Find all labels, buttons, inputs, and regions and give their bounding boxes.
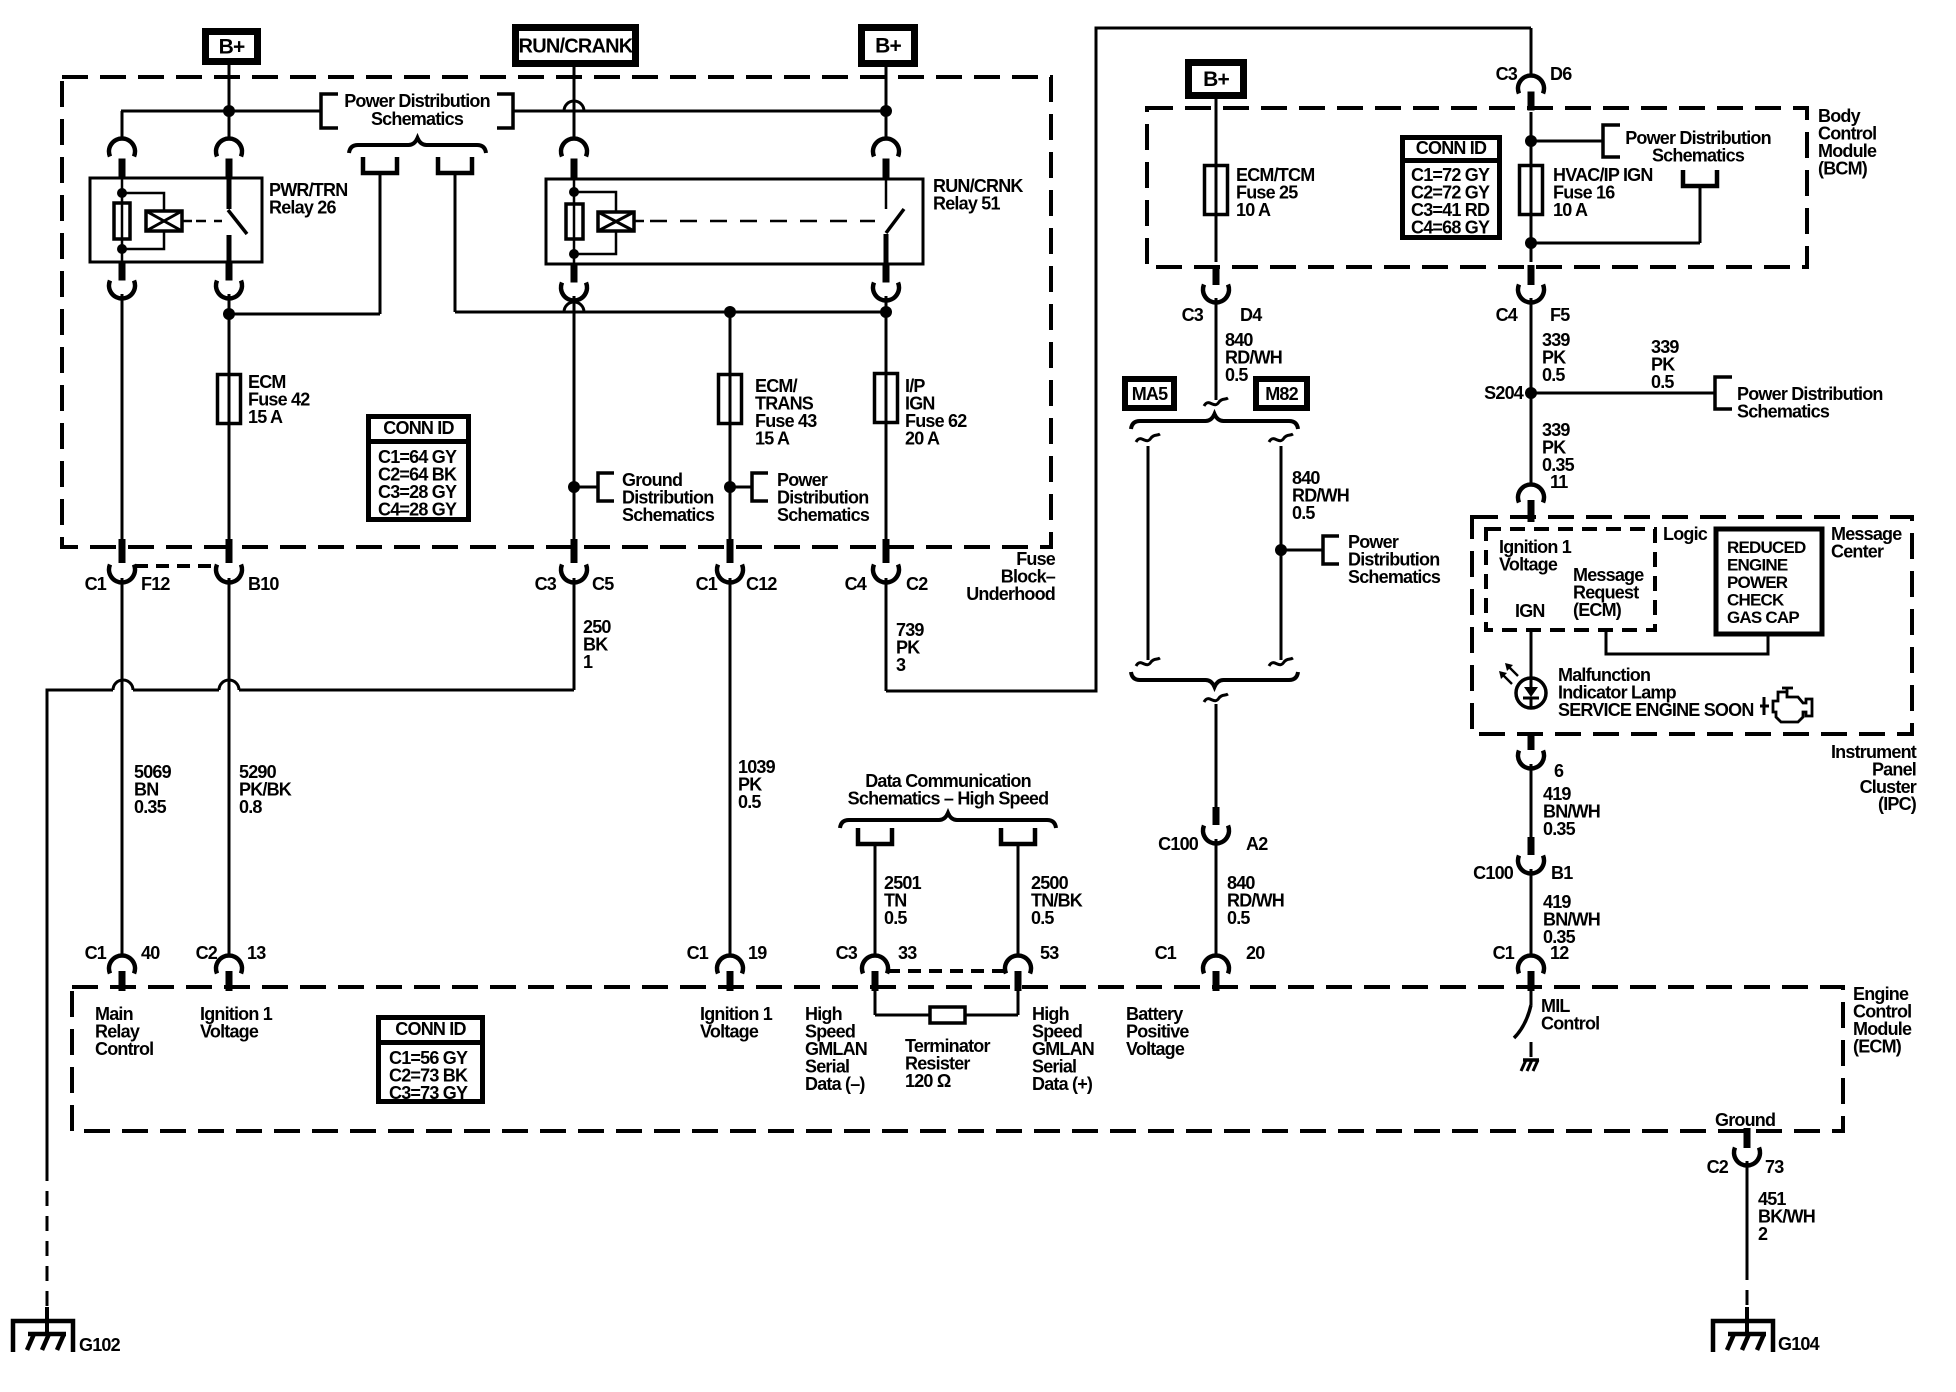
svg-text:19: 19 — [748, 943, 767, 963]
svg-text:10 A: 10 A — [1553, 200, 1588, 220]
svg-text:C1: C1 — [687, 943, 709, 963]
svg-text:120 Ω: 120 Ω — [905, 1071, 951, 1091]
svg-text:40: 40 — [141, 943, 160, 963]
svg-text:Schematics: Schematics — [1652, 146, 1745, 166]
svg-text:Logic: Logic — [1663, 524, 1708, 544]
svg-text:Data (+): Data (+) — [1032, 1074, 1093, 1094]
svg-text:C3: C3 — [836, 943, 858, 963]
svg-text:C100: C100 — [1158, 834, 1199, 854]
svg-text:C4=68 GY: C4=68 GY — [1411, 218, 1490, 238]
svg-text:C1: C1 — [85, 943, 107, 963]
svg-text:B+: B+ — [219, 36, 245, 59]
svg-text:15 A: 15 A — [755, 429, 790, 449]
svg-text:C5: C5 — [592, 574, 614, 594]
svg-text:20: 20 — [1246, 943, 1265, 963]
svg-text:F5: F5 — [1550, 305, 1570, 325]
svg-text:M82: M82 — [1265, 384, 1298, 404]
svg-text:13: 13 — [247, 943, 266, 963]
svg-text:0.5: 0.5 — [1227, 908, 1250, 928]
svg-text:Ground: Ground — [1715, 1110, 1775, 1130]
svg-text:Schematics: Schematics — [371, 109, 464, 129]
svg-text:Schematics: Schematics — [1348, 567, 1441, 587]
svg-text:REDUCED: REDUCED — [1727, 538, 1806, 557]
svg-text:RUN/CRANK: RUN/CRANK — [519, 36, 634, 58]
svg-text:C1: C1 — [1493, 943, 1515, 963]
svg-text:Power Distribution: Power Distribution — [344, 91, 490, 111]
svg-text:Underhood: Underhood — [966, 584, 1055, 604]
svg-text:(IPC): (IPC) — [1878, 794, 1917, 814]
svg-text:Schematics: Schematics — [777, 505, 870, 525]
svg-text:20 A: 20 A — [905, 429, 940, 449]
svg-text:11: 11 — [1550, 472, 1568, 492]
svg-text:C2: C2 — [1707, 1157, 1729, 1177]
svg-text:10 A: 10 A — [1236, 200, 1271, 220]
svg-text:12: 12 — [1550, 943, 1569, 963]
svg-text:Data (–): Data (–) — [805, 1074, 865, 1094]
svg-text:Control: Control — [95, 1039, 153, 1059]
svg-text:73: 73 — [1765, 1157, 1784, 1177]
svg-text:0.5: 0.5 — [1651, 372, 1674, 392]
svg-text:0.5: 0.5 — [1292, 503, 1315, 523]
svg-text:15 A: 15 A — [248, 407, 283, 427]
svg-text:C3: C3 — [1182, 305, 1204, 325]
svg-text:Relay 51: Relay 51 — [933, 194, 1000, 214]
svg-text:POWER: POWER — [1727, 573, 1788, 592]
svg-text:33: 33 — [898, 943, 917, 963]
svg-text:D6: D6 — [1550, 64, 1572, 84]
svg-text:C4: C4 — [845, 574, 867, 594]
svg-text:IGN: IGN — [1515, 601, 1545, 621]
svg-text:C3: C3 — [1496, 64, 1518, 84]
svg-text:G102: G102 — [79, 1335, 121, 1355]
svg-text:C1: C1 — [696, 574, 718, 594]
svg-text:C100: C100 — [1473, 863, 1514, 883]
svg-text:CONN ID: CONN ID — [383, 418, 454, 438]
svg-text:CONN ID: CONN ID — [1416, 138, 1487, 158]
svg-text:0.5: 0.5 — [1542, 365, 1565, 385]
svg-text:Voltage: Voltage — [200, 1022, 259, 1042]
svg-text:C1: C1 — [1155, 943, 1177, 963]
svg-text:3: 3 — [896, 655, 906, 675]
svg-text:53: 53 — [1040, 943, 1059, 963]
svg-text:Schematics: Schematics — [622, 505, 715, 525]
svg-text:0.5: 0.5 — [1031, 908, 1054, 928]
svg-text:C12: C12 — [746, 574, 777, 594]
svg-text:Schematics – High Speed: Schematics – High Speed — [848, 789, 1049, 809]
svg-text:C4: C4 — [1496, 305, 1518, 325]
svg-text:C2: C2 — [906, 574, 928, 594]
svg-text:SERVICE ENGINE SOON: SERVICE ENGINE SOON — [1558, 700, 1754, 720]
svg-text:ENGINE: ENGINE — [1727, 556, 1788, 575]
svg-text:G104: G104 — [1778, 1334, 1820, 1354]
svg-text:6: 6 — [1554, 761, 1564, 781]
svg-text:C2: C2 — [196, 943, 218, 963]
svg-text:Voltage: Voltage — [700, 1022, 759, 1042]
svg-text:GAS CAP: GAS CAP — [1727, 608, 1799, 627]
svg-text:Relay 26: Relay 26 — [269, 198, 336, 218]
svg-text:D4: D4 — [1240, 305, 1262, 325]
svg-text:0.35: 0.35 — [1543, 819, 1576, 839]
svg-text:A2: A2 — [1246, 834, 1268, 854]
svg-text:0.5: 0.5 — [1225, 365, 1248, 385]
svg-text:C3: C3 — [535, 574, 557, 594]
svg-text:Center: Center — [1831, 542, 1884, 562]
svg-text:2: 2 — [1758, 1224, 1768, 1244]
svg-text:(ECM): (ECM) — [1573, 600, 1622, 620]
svg-text:Control: Control — [1541, 1014, 1599, 1034]
svg-text:C3=73 GY: C3=73 GY — [389, 1083, 468, 1103]
svg-text:(BCM): (BCM) — [1818, 159, 1868, 179]
svg-text:MA5: MA5 — [1132, 384, 1168, 404]
svg-text:B+: B+ — [875, 35, 901, 58]
svg-text:1: 1 — [583, 652, 593, 672]
svg-text:C1: C1 — [85, 574, 107, 594]
svg-text:S204: S204 — [1484, 383, 1524, 403]
svg-text:C4=28 GY: C4=28 GY — [378, 500, 457, 520]
svg-text:0.5: 0.5 — [884, 908, 907, 928]
svg-text:Voltage: Voltage — [1499, 555, 1558, 575]
svg-text:CHECK: CHECK — [1727, 591, 1785, 610]
svg-text:(ECM): (ECM) — [1853, 1037, 1902, 1057]
svg-text:0.8: 0.8 — [239, 797, 262, 817]
svg-text:B+: B+ — [1203, 68, 1229, 91]
svg-text:F12: F12 — [141, 574, 170, 594]
svg-text:0.5: 0.5 — [738, 792, 761, 812]
svg-text:Schematics: Schematics — [1737, 402, 1830, 422]
svg-text:B10: B10 — [248, 574, 279, 594]
svg-text:B1: B1 — [1551, 863, 1573, 883]
svg-text:CONN ID: CONN ID — [395, 1019, 466, 1039]
svg-text:0.35: 0.35 — [134, 797, 167, 817]
svg-text:Voltage: Voltage — [1126, 1039, 1185, 1059]
